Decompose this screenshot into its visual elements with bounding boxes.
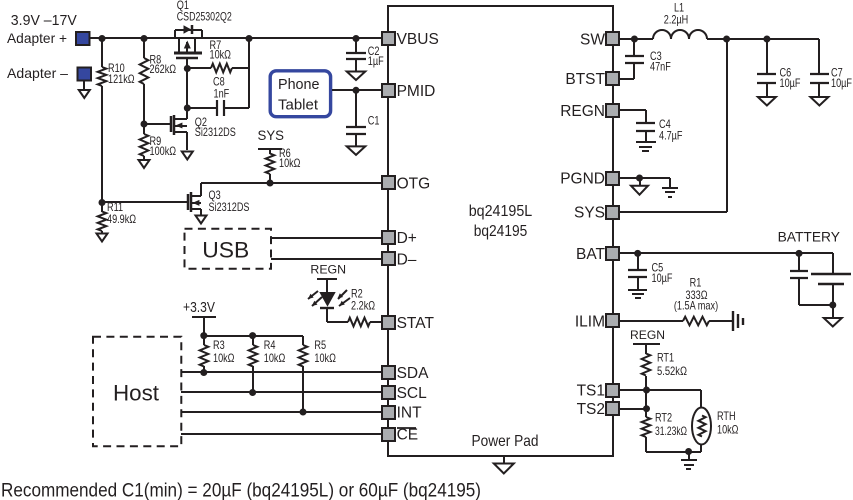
svg-text:4.7µF: 4.7µF (659, 129, 683, 143)
svg-text:10kΩ: 10kΩ (314, 351, 336, 365)
svg-text:49.9kΩ: 49.9kΩ (107, 212, 136, 226)
svg-text:10µF: 10µF (780, 76, 801, 90)
svg-text:BAT: BAT (576, 246, 606, 263)
svg-text:RT2: RT2 (655, 411, 672, 425)
svg-text:VBUS: VBUS (397, 31, 439, 48)
svg-text:REGN: REGN (560, 103, 605, 120)
svg-text:PMID: PMID (397, 83, 436, 100)
svg-text:Host: Host (113, 381, 160, 406)
svg-text:10kΩ: 10kΩ (213, 351, 235, 365)
svg-text:D+: D+ (397, 230, 417, 247)
svg-text:3.9V –17V: 3.9V –17V (11, 12, 77, 29)
svg-text:100kΩ: 100kΩ (150, 144, 177, 158)
svg-text:Recommended C1(min) = 20µF (bq: Recommended C1(min) = 20µF (bq24195L) or… (1, 480, 481, 500)
svg-text:REGN: REGN (310, 263, 346, 277)
svg-text:Si2312DS: Si2312DS (195, 125, 236, 139)
svg-text:SDA: SDA (397, 365, 430, 382)
svg-text:47nF: 47nF (650, 60, 671, 74)
svg-text:121kΩ: 121kΩ (108, 72, 135, 86)
svg-text:SYS: SYS (258, 128, 285, 143)
svg-text:REGN: REGN (630, 328, 665, 342)
svg-text:CSD25302Q2: CSD25302Q2 (177, 9, 232, 23)
svg-text:USB: USB (202, 238, 249, 263)
svg-text:bq24195: bq24195 (474, 223, 528, 240)
svg-text:R3: R3 (213, 338, 225, 352)
svg-text:bq24195L: bq24195L (469, 203, 533, 220)
svg-text:+3.3V: +3.3V (183, 299, 215, 316)
svg-text:2.2kΩ: 2.2kΩ (351, 298, 375, 312)
svg-text:BTST: BTST (565, 71, 605, 88)
svg-text:1nF: 1nF (214, 86, 230, 100)
svg-text:D–: D– (397, 251, 417, 268)
svg-text:1µF: 1µF (368, 54, 384, 68)
svg-text:SYS: SYS (574, 205, 605, 222)
svg-text:INT: INT (397, 405, 423, 422)
svg-text:(1.5A max): (1.5A max) (674, 298, 718, 312)
svg-text:R5: R5 (314, 338, 326, 352)
svg-text:10kΩ: 10kΩ (210, 48, 232, 62)
svg-text:10µF: 10µF (831, 76, 852, 90)
svg-text:SCL: SCL (397, 385, 428, 402)
svg-text:10µF: 10µF (652, 271, 673, 285)
svg-text:OTG: OTG (397, 176, 431, 193)
svg-text:RT1: RT1 (657, 351, 674, 365)
svg-text:Power Pad: Power Pad (472, 433, 539, 450)
svg-text:TS2: TS2 (577, 401, 605, 418)
svg-text:Phone: Phone (278, 76, 320, 93)
svg-text:RTH: RTH (717, 409, 736, 423)
svg-text:Si2312DS: Si2312DS (209, 200, 250, 214)
svg-text:31.23kΩ: 31.23kΩ (655, 424, 687, 438)
svg-text:10kΩ: 10kΩ (279, 156, 301, 170)
svg-text:ILIM: ILIM (575, 314, 605, 331)
svg-text:Adapter –: Adapter – (7, 65, 68, 81)
svg-text:CE: CE (397, 427, 419, 444)
svg-text:5.52kΩ: 5.52kΩ (657, 364, 687, 378)
svg-text:R4: R4 (264, 338, 276, 352)
svg-text:PGND: PGND (560, 171, 605, 188)
svg-text:BATTERY: BATTERY (778, 229, 840, 244)
svg-text:SW: SW (580, 32, 605, 49)
svg-text:STAT: STAT (397, 315, 435, 332)
svg-text:Tablet: Tablet (278, 97, 319, 114)
svg-text:2.2µH: 2.2µH (664, 13, 689, 27)
svg-text:10kΩ: 10kΩ (264, 351, 286, 365)
svg-text:C1: C1 (368, 113, 380, 127)
svg-text:TS1: TS1 (577, 383, 605, 400)
svg-text:262kΩ: 262kΩ (150, 62, 177, 76)
svg-text:10kΩ: 10kΩ (717, 423, 739, 437)
svg-text:Adapter +: Adapter + (7, 30, 67, 46)
